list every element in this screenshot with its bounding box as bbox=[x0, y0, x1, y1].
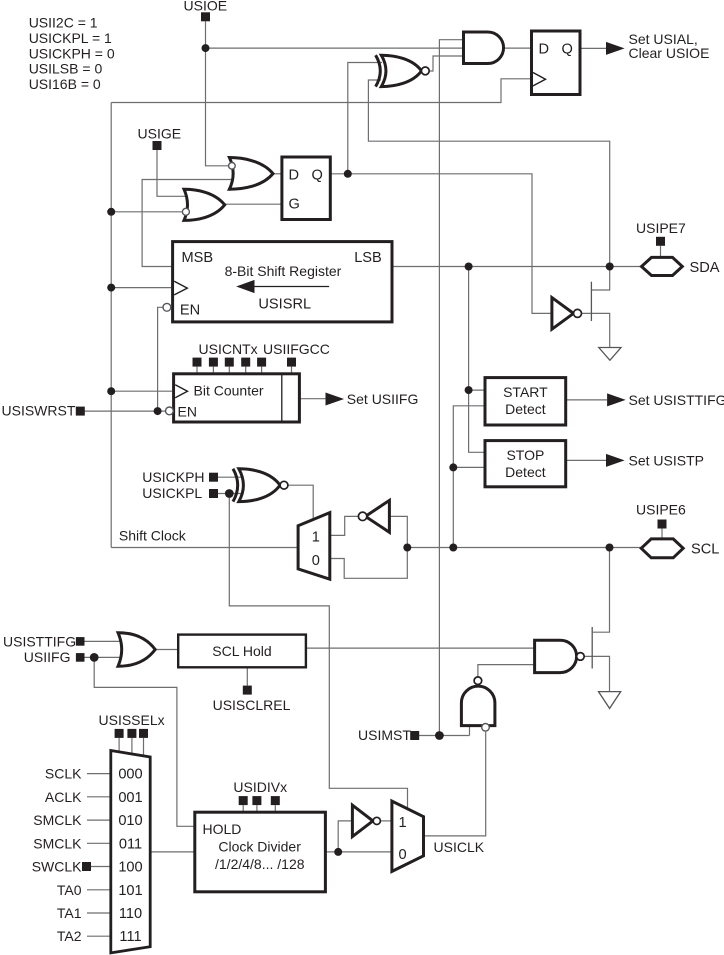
svg-text:1: 1 bbox=[312, 530, 320, 546]
wire: USISTTIFG square to OR3 input bbox=[84, 640, 121, 642]
wire: rail to bit counter clock bbox=[111, 390, 173, 392]
wire: USIOE square down to junction bbox=[205, 21, 207, 48]
wire: clock mux input SMCLK 010 bbox=[87, 819, 111, 821]
clock divider box bbox=[195, 812, 326, 892]
or gate O1 (data out) bbox=[229, 158, 273, 190]
svg-text:SDA: SDA bbox=[690, 260, 720, 276]
control bit square: USICKPH bbox=[209, 473, 218, 482]
svg-text:USISSELx: USISSELx bbox=[99, 712, 165, 728]
control bit square: USICKPL bbox=[209, 489, 218, 498]
svg-text:USISWRST: USISWRST bbox=[2, 402, 76, 418]
wire: clock mux input TA0 bbox=[87, 889, 111, 891]
junction node: USICKPL bbox=[225, 489, 234, 498]
8-bit shift register box bbox=[163, 242, 392, 322]
svg-text:HOLD: HOLD bbox=[203, 821, 242, 837]
wire: USIMST square to NAND2 input riser bbox=[419, 735, 470, 737]
nand gate G1 (SCL drive) bbox=[535, 640, 585, 672]
svg-text:SCL Hold: SCL Hold bbox=[212, 643, 271, 659]
svg-text:Q: Q bbox=[562, 42, 573, 58]
start detect box bbox=[485, 378, 566, 425]
wire: shift clock to DFF clock input bbox=[111, 79, 531, 103]
xnor gate U2 (data compare) bbox=[376, 55, 430, 86]
wire: START detect output to arrow bbox=[566, 399, 607, 401]
wire: XNOR output to AND gate input 3 bbox=[429, 56, 463, 71]
wire: SDA feedback to XNOR bottom input bbox=[368, 80, 609, 267]
wire: shift register LSB output line to SDA pin bbox=[392, 266, 642, 268]
svg-text:ACLK: ACLK bbox=[45, 789, 82, 805]
control bit square: USISTTIFG bbox=[76, 637, 85, 646]
wire: USIOE junction right to AND gate input 2 bbox=[206, 47, 464, 49]
wire: clock source mux output to clock divider bbox=[150, 851, 195, 853]
mux M1 (shift clock select) bbox=[298, 513, 330, 580]
svg-text:Set USISTTIFG: Set USISTTIFG bbox=[629, 392, 724, 408]
buffer N3 (divided clock) bbox=[352, 805, 380, 836]
wire: shift register MSB to OR1 lower input bbox=[142, 180, 232, 267]
svg-text:USIIFGCC: USIIFGCC bbox=[263, 341, 330, 357]
arrow: Set USIAL bbox=[606, 42, 625, 55]
control bit squares: USISSELx bbox=[115, 729, 148, 738]
wire: SCL branch into STOP detect bbox=[453, 466, 485, 468]
wire: AND output to DFF D bbox=[504, 47, 532, 49]
svg-text:MSB: MSB bbox=[182, 250, 214, 266]
control bit square: USISCLREL bbox=[243, 686, 252, 695]
svg-text:001: 001 bbox=[118, 790, 142, 806]
wire: clock mux input TA1 bbox=[87, 912, 111, 914]
mux M2 (clock source select) bbox=[111, 751, 150, 953]
wire: SDA inverter output through MOSFET to ground bbox=[582, 313, 610, 347]
wire: clock divider output to USICLK mux input 0 bbox=[325, 851, 392, 853]
wire: buffer output to USICLK mux input 1 bbox=[381, 820, 392, 822]
svg-text:USIPE7: USIPE7 bbox=[636, 220, 686, 236]
svg-text:Clear USIOE: Clear USIOE bbox=[629, 45, 710, 61]
svg-text:Detect: Detect bbox=[505, 401, 546, 417]
control bit square: USIPE6 bbox=[658, 520, 667, 529]
svg-text:USIMST: USIMST bbox=[358, 727, 411, 743]
svg-text:8-Bit Shift Register: 8-Bit Shift Register bbox=[225, 263, 342, 279]
svg-text:USI16B = 0: USI16B = 0 bbox=[29, 76, 101, 92]
wire: USIGE square to OR2 top input bbox=[157, 150, 186, 196]
transistor Q2 (SCL pull-down) bbox=[591, 627, 593, 669]
wire: USIDIVx square stems bbox=[243, 805, 275, 812]
svg-text:111: 111 bbox=[119, 929, 141, 945]
d flip-flop U3 bbox=[532, 31, 581, 95]
wire: clock mux input ACLK bbox=[87, 796, 111, 798]
junction node: START detect input bbox=[465, 386, 473, 394]
control bit square: USIOE bbox=[201, 12, 210, 21]
svg-text:TA0: TA0 bbox=[57, 882, 82, 898]
wire: rail to shift-clock mux output bbox=[111, 547, 298, 549]
and gate U1 (arbitration) bbox=[464, 32, 504, 64]
junction node: SDA pin node bbox=[606, 263, 614, 271]
junction node: SCL line to detectors bbox=[449, 544, 457, 552]
svg-text:USIOE: USIOE bbox=[184, 0, 228, 14]
svg-text:USICLK: USICLK bbox=[434, 839, 485, 855]
wire: USIPE7 square stem bbox=[660, 246, 662, 258]
wire: OR2 output to latch G bbox=[225, 203, 282, 205]
svg-text:LSB: LSB bbox=[354, 250, 382, 266]
svg-text:G: G bbox=[289, 197, 300, 213]
svg-text:USICKPH: USICKPH bbox=[142, 469, 204, 485]
wire: OR1 output to latch D bbox=[273, 173, 282, 175]
svg-text:110: 110 bbox=[119, 906, 142, 922]
junction node: EN line bbox=[154, 407, 162, 415]
inverter N1 (SCL invert, points left) bbox=[358, 500, 389, 532]
control bit square: USIIFGCC bbox=[287, 358, 296, 367]
svg-text:1: 1 bbox=[398, 815, 406, 831]
svg-text:0: 0 bbox=[312, 553, 320, 569]
svg-text:D: D bbox=[539, 42, 550, 58]
svg-text:USISRL: USISRL bbox=[258, 297, 311, 313]
wire: USIOE junction down and right to OR1 bubble input bbox=[206, 48, 229, 166]
ground (SDA) bbox=[599, 348, 621, 361]
scl hold box bbox=[178, 635, 306, 668]
control bit square: USIPE7 bbox=[656, 237, 665, 246]
svg-text:START: START bbox=[503, 384, 548, 400]
wire: shift register EN down to USISWRST line bbox=[158, 307, 163, 411]
nand gate G2 (master clock gate, points up) bbox=[461, 677, 495, 731]
wire: USISWRST to shift register and bit counter EN bbox=[85, 410, 166, 412]
junction node: rail to OR2 bbox=[107, 208, 115, 216]
wire: USISCLREL square up to SCL Hold box bbox=[246, 667, 248, 685]
or gate O2 (gate enable) bbox=[182, 189, 224, 220]
mux M3 (USICLK select) bbox=[392, 801, 424, 871]
control bit square: USIGE bbox=[153, 141, 162, 150]
wire: divider output branch up to buffer input bbox=[338, 821, 352, 852]
wire: rail to OR2 bubble input bbox=[111, 211, 182, 213]
svg-text:SMCLK: SMCLK bbox=[33, 812, 82, 828]
svg-text:101: 101 bbox=[118, 883, 142, 899]
wire: shift clock left rail bbox=[110, 103, 112, 548]
pin hexagon USIPE7 / SDA bbox=[642, 257, 683, 275]
wire: USIIFG junction down to clock divider HOLD input bbox=[94, 657, 195, 826]
wire: SCL NAND output through MOSFET to ground bbox=[584, 656, 609, 691]
ground (SCL) bbox=[599, 692, 621, 709]
junction node: USIOE bbox=[202, 44, 210, 52]
wire: bit counter output to Set USIIFG arrow bbox=[299, 398, 326, 400]
junction node: SCL pin node bbox=[606, 544, 614, 552]
svg-text:USIDIVx: USIDIVx bbox=[233, 779, 287, 795]
wire: rail to shift register clock bbox=[111, 287, 172, 289]
svg-text:USIPE6: USIPE6 bbox=[636, 502, 686, 518]
wire: USICKPL junction down to USICLK mux select bbox=[229, 494, 407, 810]
control bit squares: USIDIVx bbox=[239, 796, 280, 805]
wire: USIMST vertical to AND gate input 1 bbox=[439, 40, 463, 736]
wire: clock mux input SMCLK 011 bbox=[87, 842, 111, 844]
wire: SCL main line to SCL pin bbox=[407, 547, 641, 549]
svg-text:Shift Clock: Shift Clock bbox=[119, 527, 187, 543]
svg-text:Set USISTP: Set USISTP bbox=[629, 452, 704, 468]
svg-text:EN: EN bbox=[180, 303, 200, 319]
svg-text:STOP: STOP bbox=[506, 447, 544, 463]
arrow: Set USISTTIFG bbox=[607, 393, 626, 406]
wire: SCL node up to STOP and START detect bbox=[453, 406, 485, 548]
wire: node A up to XNOR top input bbox=[348, 63, 382, 174]
svg-text:USILSB = 0: USILSB = 0 bbox=[29, 61, 103, 77]
junction node: LSB line to START/STOP bbox=[465, 263, 473, 271]
wire: USIPE6 square stem bbox=[661, 529, 663, 540]
xor gate X1 (clock polarity) bbox=[233, 469, 288, 502]
svg-text:USISCLREL: USISCLREL bbox=[213, 697, 291, 713]
wire: USIIFGCC square stem bbox=[291, 367, 293, 374]
wire: shift-clock inverter input from SCL line bbox=[389, 516, 407, 547]
svg-text:010: 010 bbox=[118, 813, 142, 829]
inverter N2 (SDA output driver) bbox=[552, 298, 582, 330]
svg-text:D: D bbox=[289, 168, 300, 184]
svg-text:000: 000 bbox=[118, 767, 142, 783]
svg-text:/1/2/4/8... /128: /1/2/4/8... /128 bbox=[215, 856, 305, 872]
wire: NAND2 left input down to USIMST line bbox=[469, 724, 471, 736]
svg-text:USISTTIFG: USISTTIFG bbox=[3, 633, 76, 649]
junction node: STOP detect input bbox=[449, 463, 457, 471]
control bit square: USIIFG bbox=[76, 653, 85, 662]
junction node: USIMST bbox=[435, 731, 444, 740]
wire: clock mux input TA2 bbox=[87, 935, 111, 937]
wire: NAND2 output up to NAND1 bottom input bbox=[478, 665, 535, 677]
d latch U4 bbox=[282, 157, 330, 220]
junction node: rail to shift register clock bbox=[107, 284, 115, 292]
arrow: Set USISTP bbox=[606, 454, 625, 467]
svg-text:USICKPL = 1: USICKPL = 1 bbox=[29, 30, 112, 46]
wire: shift-clock mux input 0 loop to SCL line bbox=[330, 548, 408, 579]
wire: USIIFG square to OR3 input bbox=[84, 656, 121, 658]
junction node: SCL line at mux loop bbox=[403, 544, 411, 552]
junction node: divider output bbox=[334, 848, 342, 856]
wire: OR3 output to SCL Hold box bbox=[155, 649, 178, 651]
svg-text:Clock Divider: Clock Divider bbox=[218, 839, 301, 855]
svg-text:USIGE: USIGE bbox=[138, 126, 182, 142]
svg-text:EN: EN bbox=[178, 404, 197, 420]
svg-text:TA2: TA2 bbox=[57, 928, 82, 944]
junction node: rail to bit counter clock bbox=[107, 387, 115, 395]
wire: SCL node down to SCL MOSFET drain bbox=[593, 548, 610, 633]
wire: SDA node down to START detect and STOP detect bbox=[469, 267, 485, 453]
wire: DFF Q to Set USIAL arrow bbox=[580, 47, 607, 49]
svg-text:0: 0 bbox=[398, 847, 406, 863]
junction node: USIIFG bbox=[90, 653, 99, 662]
svg-text:SWCLK: SWCLK bbox=[32, 859, 82, 875]
arrow: Set USIIFG bbox=[326, 393, 345, 406]
wire: USISSELx square stems bbox=[119, 738, 143, 756]
junction node A: latch Q feedback bbox=[344, 170, 352, 178]
control bit squares: USICNTx bbox=[193, 358, 267, 367]
stop detect box bbox=[485, 441, 566, 487]
svg-text:Detect: Detect bbox=[505, 464, 546, 480]
transistor Q1 (SDA pull-down) bbox=[590, 282, 592, 321]
svg-text:Set USIIFG: Set USIIFG bbox=[347, 391, 419, 407]
wire: STOP detect output to arrow bbox=[566, 459, 607, 461]
svg-text:USICKPL: USICKPL bbox=[142, 485, 202, 501]
wire: USICKPH square to XOR input bbox=[218, 476, 242, 478]
wire: USICKPL square to XOR input bbox=[218, 493, 242, 495]
svg-text:TA1: TA1 bbox=[57, 905, 82, 921]
svg-text:SCL: SCL bbox=[691, 542, 719, 558]
wire: shift-clock inverter output to mux input 1 bbox=[330, 516, 359, 535]
wire: XOR output to shift-clock mux select bbox=[288, 485, 313, 519]
wire: USICNTx square stems bbox=[197, 367, 262, 374]
bit counter box bbox=[166, 374, 300, 422]
svg-text:SMCLK: SMCLK bbox=[33, 835, 82, 851]
control bit square: USISWRST bbox=[76, 407, 85, 416]
wire: clock mux input SWCLK bbox=[91, 866, 111, 868]
svg-text:100: 100 bbox=[118, 860, 142, 876]
config text block bbox=[29, 15, 115, 93]
wire: USICLK from mux up to NAND2 bubble input bbox=[424, 732, 486, 836]
svg-text:011: 011 bbox=[119, 836, 142, 852]
pin hexagon USIPE6 / SCL bbox=[641, 539, 683, 558]
svg-text:Q: Q bbox=[312, 168, 323, 184]
wire: clock mux input SCLK bbox=[87, 773, 111, 775]
or gate O3 (hold request) bbox=[118, 633, 155, 667]
svg-text:USICKPH = 0: USICKPH = 0 bbox=[29, 45, 115, 61]
svg-text:USICNTx: USICNTx bbox=[199, 341, 258, 357]
svg-text:Bit Counter: Bit Counter bbox=[194, 383, 264, 399]
control bit square: SWCLK bbox=[82, 862, 91, 871]
svg-text:USII2C = 1: USII2C = 1 bbox=[29, 15, 98, 31]
wire: SDA branch into START detect bbox=[469, 389, 485, 391]
svg-text:SCLK: SCLK bbox=[45, 766, 82, 782]
svg-text:USIIFG: USIIFG bbox=[24, 649, 71, 665]
wire: SCL Hold output to NAND1 top input bbox=[306, 647, 535, 649]
wire: SDA node down to MOSFET drain bbox=[592, 267, 610, 291]
wire: latch Q to data-out node and to SDA driver inverter bbox=[330, 174, 552, 314]
control bit square: USIMST bbox=[410, 731, 419, 740]
